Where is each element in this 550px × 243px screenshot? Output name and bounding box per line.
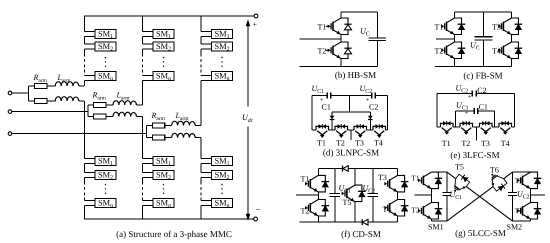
wire: negative DC bus — [84, 218, 254, 220]
clamp diode D6 (CD-SM top rail) — [343, 166, 349, 172]
IGBT T4 (5LCC-SM SM2) — [517, 203, 541, 220]
switch T4 (IGBT with diode, 3LNPC-SM) — [373, 124, 386, 138]
submodule SMn (leg 3 lower arm) — [212, 199, 233, 208]
ellipsis dots (leg 1 upper arm) — [105, 57, 106, 58]
wire: SM2 loop rails and terminal stub — [513, 172, 546, 221]
switch T4 (IGBT with diode, 3LFC-SM) — [499, 121, 512, 135]
svg-text:T3: T3 — [355, 139, 364, 148]
switch T1 (IGBT with diode, 3LFC-SM) — [441, 121, 454, 135]
wire: phase a lower arm branch — [28, 100, 84, 102]
resistor Rarm (phase a lower arm) — [35, 99, 47, 104]
wire: SM1 loop rails and terminal stub — [415, 172, 447, 221]
svg-text:(f) CD-SM: (f) CD-SM — [341, 229, 381, 239]
svg-text:T1: T1 — [442, 139, 451, 148]
IGBT T1 (CD-SM) — [305, 175, 329, 192]
Udc voltage arrow (double-headed) — [247, 26, 249, 215]
svg-text:SM1: SM1 — [428, 223, 444, 232]
wire: 3LFC-SM switch row — [437, 126, 514, 128]
IGBT T3 (FB-SM) — [498, 18, 522, 35]
submodule SM2 (leg 1 upper arm) — [95, 42, 116, 51]
wire: 3LFC-SM output stub — [475, 127, 477, 140]
switch T2 (IGBT with diode, 3LNPC-SM) — [335, 124, 348, 138]
svg-text:T4: T4 — [515, 206, 524, 215]
wire: cross-connection diagonal (T5 path) — [447, 172, 513, 221]
wire: 3LNPC-SM neutral branch — [332, 95, 370, 112]
svg-text:C1: C1 — [479, 103, 488, 112]
svg-text:T1: T1 — [435, 23, 444, 32]
svg-text:T6: T6 — [490, 166, 499, 175]
wire: CD-SM top rail — [318, 168, 397, 170]
IGBT T3 (5LCC-SM SM2) — [517, 172, 541, 189]
wire: phase b terminal to arm junction — [12, 105, 88, 117]
resistor Rarm (phase c upper arm) — [152, 123, 164, 128]
IGBT T4 (CD-SM) — [384, 200, 408, 217]
svg-text:T3: T3 — [481, 139, 490, 148]
svg-text:T3: T3 — [492, 23, 501, 32]
svg-text:SM2: SM2 — [507, 223, 523, 232]
submodule SMn (leg 3 upper arm) — [212, 72, 233, 81]
capacitor C2 (3LNPC-SM) — [372, 92, 376, 98]
svg-text:C2: C2 — [369, 103, 378, 112]
svg-text:T3: T3 — [515, 176, 524, 185]
IGBT T2 (FB-SM) — [441, 42, 465, 59]
wire: leg 1 lower arm bus — [85, 101, 96, 182]
switch T3 (IGBT with diode, 3LFC-SM) — [480, 121, 493, 135]
wire: leg 2 lower arm dashed bus — [142, 182, 144, 201]
resistor Rarm (phase a upper arm) — [35, 84, 47, 89]
AC terminal phase a (circle) — [8, 91, 12, 95]
svg-text:T2: T2 — [336, 139, 345, 148]
IGBT T3 (CD-SM) — [384, 175, 408, 192]
wire: positive DC bus — [84, 15, 254, 17]
wire: cross-connection diagonal (T6 path) — [447, 172, 513, 221]
inductor Larm (phase a lower arm) — [55, 97, 79, 101]
ellipsis dots (leg 3 lower arm) — [221, 184, 222, 185]
svg-text:(a) Structure of a 3-phase MMC: (a) Structure of a 3-phase MMC — [116, 229, 232, 239]
resistor Rarm (phase c lower arm) — [152, 135, 164, 140]
ellipsis dots (leg 2 lower arm) — [163, 184, 164, 185]
DC terminal - (circle) — [254, 217, 258, 221]
svg-text:C2: C2 — [477, 86, 486, 95]
wire: clamp diode D6 leads — [369, 112, 371, 130]
submodule SM1 (leg 3 lower arm) — [212, 157, 233, 166]
wire: SM1 capacitor branch — [446, 172, 448, 221]
submodule SM2 (leg 2 upper arm) — [153, 42, 174, 51]
svg-text:T2: T2 — [318, 47, 327, 56]
ellipsis dots (leg 3 upper arm) — [221, 57, 222, 58]
wire: leg 2 upper arm dashed bus — [142, 54, 144, 76]
svg-text:(e) 3LFC-SM: (e) 3LFC-SM — [450, 150, 499, 160]
svg-text:T5: T5 — [455, 163, 464, 172]
svg-text:T1: T1 — [317, 139, 326, 148]
svg-text:+: + — [465, 110, 469, 117]
wire: leg 1 upper arm bus lower part — [85, 76, 96, 87]
inductor Larm (phase b upper arm) — [113, 101, 137, 105]
wire: phase c terminal to arm junction — [12, 126, 147, 138]
wire: CD-SM right leg — [397, 169, 399, 223]
wire: HB-SM outer loop and terminals — [300, 12, 378, 67]
capacitor C (HB-SM) with value UC — [369, 38, 386, 41]
capacitor C1 (3LFC-SM flying) — [474, 108, 478, 114]
wire: leg 1 lower arm dashed bus — [84, 182, 86, 201]
clamp diode D6 (3LNPC-SM) — [368, 116, 373, 120]
submodule SMn (leg 1 upper arm) — [95, 72, 116, 81]
wire: FB-SM left leg — [454, 12, 456, 66]
wire: leg 3 upper arm bus — [201, 16, 212, 54]
wire: clamp diode D5 leads — [331, 112, 333, 130]
wire: capacitor C1 branch — [334, 169, 336, 223]
svg-text:T1: T1 — [411, 174, 420, 183]
ellipsis dots (leg 2 upper arm) — [163, 57, 164, 58]
wire: CD-SM bottom rail and terminal — [300, 221, 398, 223]
wire: leg 1 upper arm dashed bus — [84, 54, 86, 76]
wire: T5 branch — [354, 169, 356, 223]
submodule SM2 (leg 2 lower arm) — [153, 171, 174, 180]
IGBT T6 (cross switch, rotated) — [487, 170, 509, 193]
wire: leg 1 lower arm bus bottom part — [85, 201, 96, 220]
svg-text:T4: T4 — [374, 139, 383, 148]
DC terminal + (circle) — [254, 14, 258, 18]
svg-text:T1: T1 — [301, 175, 310, 184]
svg-text:+: + — [468, 94, 472, 101]
inductor Larm (phase c upper arm) — [172, 121, 196, 125]
wire: HB-SM phase leg — [340, 12, 342, 67]
wire: leg 1 upper arm bus — [85, 16, 96, 54]
submodule SM2 (leg 1 lower arm) — [95, 171, 116, 180]
submodule SM1 (leg 3 upper arm) — [212, 30, 233, 39]
svg-text:T2: T2 — [301, 207, 310, 216]
wire: phase a terminal to arm junction — [12, 86, 29, 101]
wire: 3LFC-SM outer loop — [437, 93, 514, 127]
AC terminal phase b (circle) — [8, 110, 12, 114]
capacitor C2 (5LCC-SM) — [508, 193, 517, 196]
svg-text:T5: T5 — [343, 198, 352, 207]
svg-text:T4: T4 — [501, 139, 510, 148]
submodule SM1 (leg 1 upper arm) — [95, 30, 116, 39]
wire: 3LNPC-SM top rail — [312, 94, 387, 96]
resistor Rarm (phase b upper arm) — [94, 103, 106, 108]
svg-text:−: − — [256, 205, 261, 215]
wire: leg 3 upper arm bus lower part — [201, 76, 212, 126]
svg-text:(g) 5LCC-SM: (g) 5LCC-SM — [455, 228, 506, 238]
IGBT T5 (CD-SM clamp switch) — [342, 185, 366, 202]
svg-text:T3: T3 — [378, 173, 387, 182]
wire: leg 3 lower arm bus bottom part — [201, 201, 212, 220]
IGBT T2 (HB-SM) with anti-parallel diode — [326, 42, 352, 59]
wire: capacitor C2 branch — [372, 169, 374, 223]
wire: phase a upper arm branch — [28, 85, 84, 87]
IGBT T1 (HB-SM) with anti-parallel diode — [326, 18, 352, 35]
wire: phase b lower arm branch — [88, 116, 143, 118]
submodule SM2 (leg 3 upper arm) — [212, 42, 233, 51]
IGBT T2 (5LCC-SM SM1) — [418, 203, 442, 220]
svg-text:T2: T2 — [461, 139, 470, 148]
svg-text:(c) FB-SM: (c) FB-SM — [463, 71, 502, 81]
wire: leg 3 lower arm dashed bus — [200, 182, 202, 201]
svg-text:T2: T2 — [435, 47, 444, 56]
wire: phase c lower arm branch — [146, 137, 201, 139]
svg-text:T2: T2 — [411, 206, 420, 215]
wire: leg 3 upper arm dashed bus — [200, 54, 202, 76]
clamp diode D7 (CD-SM bottom rail) — [362, 219, 368, 225]
svg-text:(b) HB-SM: (b) HB-SM — [335, 70, 376, 80]
wire: leg 2 lower arm bus bottom part — [143, 201, 154, 220]
wire: 3LNPC-SM left and right verticals — [312, 95, 387, 130]
capacitor C1 (5LCC-SM) — [443, 193, 452, 196]
submodule SMn (leg 2 lower arm) — [153, 199, 174, 208]
wire: FB-SM right leg — [510, 12, 512, 66]
IGBT T5 (cross switch, rotated) — [449, 172, 471, 195]
inductor Larm (phase b lower arm) — [113, 112, 137, 116]
IGBT T2 (CD-SM) — [305, 200, 329, 217]
svg-text:T4: T4 — [492, 47, 501, 56]
capacitor C1 (CD-SM) — [329, 194, 340, 197]
submodule SM1 (leg 2 upper arm) — [153, 30, 174, 39]
wire: 3LFC-SM inner loop — [456, 111, 495, 127]
switch T1 (IGBT with diode, 3LNPC-SM) — [316, 124, 329, 138]
clamp diode D5 (3LNPC-SM) — [330, 116, 335, 120]
capacitor C (FB-SM) with value UC — [475, 37, 493, 40]
svg-text:(d) 3LNPC-SM: (d) 3LNPC-SM — [323, 148, 379, 158]
capacitor C2 (3LFC-SM outer) — [472, 90, 476, 96]
wire: CD-SM left leg and terminal stub — [296, 169, 319, 223]
submodule SMn (leg 1 lower arm) — [95, 199, 116, 208]
switch T2 (IGBT with diode, 3LFC-SM) — [460, 121, 473, 135]
ellipsis dots (leg 1 lower arm) — [105, 184, 106, 185]
IGBT T1 (5LCC-SM SM1) — [418, 172, 442, 189]
AC terminal phase c (circle) — [8, 132, 12, 136]
switch T3 (IGBT with diode, 3LNPC-SM) — [354, 124, 367, 138]
inductor Larm (phase a upper arm) — [55, 82, 79, 86]
wire: phase c upper arm branch — [146, 125, 201, 127]
submodule SM1 (leg 2 lower arm) — [153, 157, 174, 166]
resistor Rarm (phase b lower arm) — [94, 114, 106, 119]
submodule SM1 (leg 1 lower arm) — [95, 157, 116, 166]
submodule SMn (leg 2 upper arm) — [153, 72, 174, 81]
svg-text:T1: T1 — [318, 23, 327, 32]
wire: SM2 capacitor branch — [512, 172, 514, 221]
capacitor C2 (CD-SM) — [367, 194, 378, 197]
wire: leg 2 upper arm bus lower part — [143, 76, 154, 106]
IGBT T1 (FB-SM) — [441, 18, 465, 35]
wire: leg 2 upper arm bus — [143, 16, 154, 54]
capacitor C1 (3LNPC-SM) — [327, 92, 331, 98]
wire: phase b upper arm branch — [88, 104, 143, 106]
wire: FB-SM outer loop and terminals — [435, 12, 511, 66]
svg-text:T4: T4 — [383, 205, 392, 214]
IGBT T4 (FB-SM) — [498, 42, 522, 59]
wire: 3LNPC-SM output stub — [350, 130, 352, 140]
svg-text:C1: C1 — [322, 103, 331, 112]
wire: leg 3 lower arm bus — [201, 138, 212, 182]
svg-text:+: + — [253, 20, 258, 29]
inductor Larm (phase c lower arm) — [172, 133, 196, 137]
submodule SM2 (leg 3 lower arm) — [212, 171, 233, 180]
wire: leg 2 lower arm bus — [143, 117, 154, 182]
wire: 3LNPC-SM switch row — [312, 129, 387, 131]
